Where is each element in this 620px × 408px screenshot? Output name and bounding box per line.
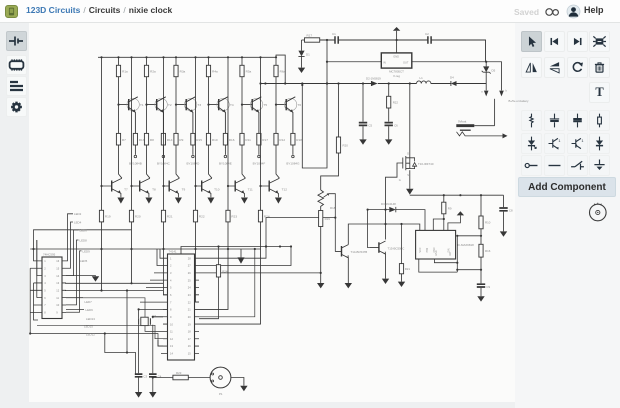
wire: U1 to U2 b	[37, 325, 163, 338]
svg-text:C6: C6	[394, 124, 398, 128]
svg-text:R20: R20	[343, 144, 349, 148]
wire: column 1 rail	[101, 57, 103, 210]
svg-text:LED8: LED8	[80, 238, 88, 242]
wire: U1 to U2 row d	[65, 290, 163, 292]
ground C5	[362, 126, 364, 139]
net arrow: T10 emitter	[207, 198, 214, 204]
net arrow: T7 emitter	[117, 198, 124, 204]
svg-text:T12: T12	[282, 188, 288, 192]
IC U2	[168, 254, 195, 360]
svg-text:BY1084D: BY1084D	[186, 162, 200, 166]
wire: T2 collector to T8	[147, 145, 150, 178]
speaker component thumb	[586, 201, 610, 225]
wire: T16 gate drive	[386, 163, 403, 240]
ground C4	[152, 378, 154, 393]
svg-text:BY1084B: BY1084B	[129, 162, 142, 166]
diode D2	[371, 81, 377, 86]
inductor L1	[417, 81, 431, 84]
resistor R24	[218, 247, 220, 265]
wire: T14 collector	[348, 224, 420, 245]
transistor T14	[341, 246, 343, 257]
svg-text:R19: R19	[325, 217, 331, 221]
capacitor C1	[335, 36, 338, 44]
svg-text:R22: R22	[199, 215, 205, 219]
net arrow: T9 emitter	[175, 198, 182, 204]
svg-text:R20: R20	[135, 215, 141, 219]
svg-text:9Vbatt: 9Vbatt	[458, 120, 467, 124]
top bar	[0, 0, 620, 23]
wire: battery minus	[457, 132, 503, 136]
node BY1084B	[134, 145, 136, 155]
transistor T3	[184, 98, 196, 110]
svg-text:C2: C2	[425, 32, 429, 36]
ground T15	[385, 257, 387, 279]
wire: crystal to U2	[139, 309, 163, 318]
wire: column 5 to logic	[199, 222, 228, 310]
buzzer P1	[188, 377, 210, 379]
svg-text:IC-MAX6818: IC-MAX6818	[457, 243, 474, 247]
wire: U2 out staircase	[199, 218, 335, 273]
svg-text:C8: C8	[509, 209, 513, 213]
svg-text:V-reg: V-reg	[393, 74, 400, 78]
wire: wiper tap	[329, 194, 336, 252]
svg-text:R9: R9	[448, 206, 452, 210]
resistor R10	[480, 195, 482, 216]
wire: T15 base	[368, 210, 370, 248]
wire: U2 top supply	[181, 247, 291, 255]
svg-text:GND: GND	[435, 250, 438, 256]
svg-text:LED9: LED9	[86, 308, 94, 312]
svg-text:S: S	[407, 173, 409, 177]
resistor R6c	[291, 133, 295, 145]
resistor R4b	[206, 133, 210, 145]
wire: U1 to U2 a	[66, 298, 163, 332]
node LED9	[66, 251, 82, 312]
resistor R24	[258, 210, 262, 222]
capacitor C9	[480, 257, 482, 283]
svg-text:R7: R7	[122, 138, 126, 142]
resistor R16	[480, 229, 482, 245]
resistor R2	[146, 57, 148, 65]
svg-text:R22: R22	[393, 101, 399, 105]
node LED6	[66, 230, 79, 276]
svg-text:R13: R13	[139, 138, 145, 142]
capacitor C5	[362, 84, 364, 122]
wire: R4 to T4 base	[209, 77, 219, 134]
svg-text:T4: T4	[230, 103, 234, 107]
svg-text:R14: R14	[167, 138, 173, 142]
zener D5	[485, 62, 487, 67]
svg-text:74HC595: 74HC595	[43, 252, 56, 256]
resistor R6b	[274, 133, 278, 145]
svg-text:b: b	[506, 89, 508, 92]
svg-text:LED7: LED7	[85, 300, 93, 304]
ground C3	[138, 378, 140, 393]
resistor R23	[226, 210, 230, 222]
svg-text:R3a: R3a	[180, 70, 186, 74]
wire: column 4 to logic	[196, 222, 200, 302]
resistor R4c	[223, 133, 227, 145]
ground T16 source	[409, 170, 411, 189]
svg-text:R2a: R2a	[150, 70, 156, 74]
svg-text:T9: T9	[182, 188, 186, 192]
svg-text:R15: R15	[196, 138, 202, 142]
svg-text:R19: R19	[105, 215, 111, 219]
svg-text:LED6: LED6	[80, 228, 88, 232]
svg-text:T6: T6	[298, 103, 302, 107]
wire: data bus A	[30, 248, 260, 250]
chat icon	[545, 7, 561, 17]
svg-text:R12: R12	[279, 138, 285, 142]
transistor T11	[234, 181, 236, 192]
wire: +5V logic rail	[410, 194, 504, 196]
avatar	[566, 4, 581, 19]
svg-text:R10: R10	[485, 221, 491, 225]
ground buzzer	[231, 378, 244, 386]
svg-text:B+5v-or-battery: B+5v-or-battery	[509, 99, 530, 103]
svg-text:R18: R18	[296, 138, 302, 142]
wire: bus to boost output	[276, 55, 285, 83]
wire: T1 collector to T7	[119, 145, 122, 178]
svg-text:T11: T11	[248, 188, 253, 192]
svg-text:C1: C1	[332, 32, 336, 36]
ground U1	[66, 275, 96, 278]
svg-text:R16: R16	[229, 138, 235, 142]
svg-text:BY1084G: BY1084G	[286, 162, 300, 166]
wire: bus A to U2	[199, 249, 255, 317]
net arrow: T11 emitter	[241, 198, 248, 204]
net arrow: T8 emitter	[145, 198, 152, 204]
wire: R5 to T5 base	[242, 77, 252, 134]
svg-text:LED13: LED13	[86, 317, 95, 321]
node LED7	[66, 297, 83, 299]
svg-text:IN: IN	[383, 60, 386, 64]
resistor R17	[302, 39, 305, 41]
svg-text:G: G	[399, 178, 401, 182]
svg-text:R23: R23	[231, 215, 237, 219]
wire: left bus verticals	[30, 240, 38, 334]
node BY1084G	[292, 145, 294, 155]
transistor T12	[268, 181, 270, 192]
wire: R20 to potentiometer	[321, 153, 339, 190]
svg-text:a: a	[481, 90, 483, 93]
resistor R5c	[257, 133, 261, 145]
transistor T10	[201, 181, 203, 192]
wire: column 2 rail	[131, 57, 133, 210]
svg-text:R23: R23	[176, 371, 182, 375]
wire: R1 to T1 base	[119, 77, 129, 134]
crystal Y1	[141, 317, 148, 325]
svg-text:T5: T5	[264, 103, 268, 107]
transistor T15	[378, 242, 380, 253]
resistor R5	[241, 57, 243, 65]
resistor R1b	[116, 133, 120, 145]
IC U4 MAX	[416, 230, 456, 259]
svg-text:VCC: VCC	[419, 247, 422, 252]
svg-text:T8: T8	[152, 188, 156, 192]
svg-text:C5: C5	[368, 124, 372, 128]
ground C6	[388, 126, 390, 139]
right toolbar row2	[521, 57, 542, 78]
wire: R3 to T3 base	[176, 77, 186, 134]
capacitor C8	[503, 195, 505, 207]
node BY1084F	[258, 145, 260, 155]
wire: T13 loop	[302, 84, 327, 169]
transistor T6	[284, 98, 296, 110]
svg-text:R5a: R5a	[246, 70, 252, 74]
capacitor C2	[428, 36, 431, 44]
capacitor C3	[135, 374, 143, 377]
wire: column 5 rail	[227, 57, 229, 210]
svg-text:L1: L1	[420, 76, 424, 80]
svg-text:R16: R16	[485, 249, 491, 253]
node BY1084D	[192, 145, 194, 155]
wire: T6 collector to T12	[276, 145, 279, 178]
node LED2	[66, 214, 73, 261]
wire: column 4 rail	[195, 57, 197, 210]
wire: R6 to T6 base	[276, 77, 286, 134]
svg-text:GND: GND	[393, 55, 399, 59]
ground R21	[401, 274, 403, 282]
svg-text:LED15: LED15	[84, 324, 93, 328]
wire: column 6 to logic	[199, 222, 261, 324]
svg-text:C4: C4	[158, 375, 162, 379]
transistor T8	[139, 181, 141, 192]
svg-text:R8: R8	[150, 138, 154, 142]
wire: U4 top pins	[396, 210, 444, 231]
net arrow: T12 emitter	[275, 198, 282, 204]
svg-text:T1: T1	[140, 103, 144, 107]
node LED9	[66, 309, 84, 311]
svg-text:R17: R17	[307, 33, 313, 37]
resistor R3	[175, 57, 177, 65]
svg-text:T2: T2	[168, 103, 172, 107]
svg-text:R6a: R6a	[280, 70, 286, 74]
svg-text:R11: R11	[245, 138, 251, 142]
svg-text:R9: R9	[179, 138, 183, 142]
resistor R4	[208, 57, 210, 65]
svg-text:D2-1N5819: D2-1N5819	[366, 77, 381, 81]
diode D1	[301, 40, 303, 51]
resistor R1	[118, 57, 120, 65]
capacitor C4	[149, 374, 157, 377]
svg-text:R17: R17	[262, 138, 268, 142]
ground C9	[480, 288, 482, 296]
svg-text:C3: C3	[143, 375, 147, 379]
svg-text:T3: T3	[198, 103, 202, 107]
capacitor C6	[388, 108, 390, 122]
wire: U1 loop	[105, 291, 136, 375]
diode D3	[368, 209, 390, 211]
logo	[5, 5, 18, 18]
left sidebar	[6, 31, 27, 51]
ground T14	[347, 260, 349, 283]
node LED4	[66, 222, 73, 268]
wire: R2 to T2 base	[147, 77, 157, 134]
resistor R5b	[240, 133, 244, 145]
resistor R22	[388, 84, 390, 97]
wire: T4 collector to T10	[209, 145, 212, 178]
svg-text:T14-BC547B: T14-BC547B	[351, 250, 368, 254]
svg-text:DO: DO	[449, 252, 452, 256]
svg-text:LED9: LED9	[83, 249, 91, 253]
svg-text:R21: R21	[167, 215, 173, 219]
node LED8	[66, 240, 79, 305]
wire: 9V switched line	[261, 83, 487, 85]
resistor R2c	[161, 133, 165, 145]
transistor T5	[250, 98, 262, 110]
transistor T16 MOSFET	[409, 84, 411, 158]
battery BAT1	[456, 124, 474, 127]
svg-text:OUT: OUT	[403, 60, 409, 64]
svg-text:T7: T7	[124, 188, 128, 192]
transistor T4	[217, 98, 229, 110]
svg-text:BY1084E: BY1084E	[219, 162, 232, 166]
wire: R10 R16 taps	[457, 236, 481, 270]
svg-text:R24: R24	[222, 269, 228, 273]
voltage regulator U3	[381, 53, 412, 68]
svg-text:D: D	[407, 151, 409, 155]
wire: column 1 to logic	[101, 222, 103, 291]
potentiometer R18	[318, 190, 324, 211]
ground R19	[320, 227, 322, 284]
wire: regulator output	[412, 62, 502, 91]
canvas background	[29, 23, 515, 402]
resistor R9	[443, 195, 445, 202]
resistor R23	[153, 377, 173, 379]
component grid	[521, 110, 542, 131]
svg-text:LED2: LED2	[74, 212, 82, 216]
resistor R20	[129, 210, 133, 222]
wire: +170V anode bus	[98, 56, 276, 58]
resistor R2b	[144, 133, 148, 145]
wire: column 3 rail	[163, 57, 165, 210]
ground C8	[503, 212, 505, 232]
svg-text:R21: R21	[405, 267, 411, 271]
resistor R21	[161, 210, 165, 222]
svg-text:D5: D5	[492, 69, 496, 73]
power arrow +5V	[396, 31, 398, 53]
svg-text:T16-IRF740: T16-IRF740	[418, 162, 434, 166]
text tool	[589, 82, 610, 103]
wire: U1 to U2 c	[30, 334, 163, 347]
wire: T3 collector to T9	[176, 145, 179, 178]
resistor R19	[319, 211, 323, 227]
resistor R3c	[191, 133, 195, 145]
node BY1084C	[162, 145, 164, 155]
diode D4	[451, 81, 457, 86]
svg-text:LED4: LED4	[74, 220, 82, 224]
wire: crystal caps rails	[139, 325, 153, 374]
svg-text:LED12: LED12	[86, 332, 95, 336]
wire: T5 collector to T11	[242, 145, 245, 178]
resistor R3b	[174, 133, 178, 145]
resistor R19	[99, 210, 103, 222]
resistor R20	[338, 84, 340, 138]
ground D1	[298, 68, 305, 73]
net arrow: bus A	[240, 249, 242, 257]
svg-text:D4: D4	[450, 76, 454, 80]
svg-text:LED5: LED5	[80, 259, 88, 263]
svg-text:T10: T10	[214, 188, 220, 192]
svg-text:R18: R18	[330, 206, 336, 210]
wire: switch pole	[494, 99, 496, 126]
svg-text:BY1084F: BY1084F	[253, 162, 266, 166]
resistor R6	[275, 57, 277, 65]
resistor R22	[193, 210, 197, 222]
wire: column 3 to logic	[164, 222, 168, 295]
wire: column 2 to logic	[131, 222, 133, 283]
wire: U1 to U2 row e	[65, 282, 163, 284]
transistor T9	[168, 181, 170, 192]
transistor T2	[155, 98, 167, 110]
power arrow IC3	[448, 215, 461, 230]
node BY1084E	[224, 145, 226, 155]
svg-text:P1: P1	[219, 392, 223, 396]
IC U1	[42, 257, 62, 319]
resistor R1c	[133, 133, 137, 145]
svg-text:R4a: R4a	[212, 70, 218, 74]
svg-text:74141: 74141	[169, 249, 177, 253]
wire: 9V input rail	[320, 40, 486, 62]
switch S1	[485, 84, 487, 91]
wire: U2 left pins to nest	[140, 249, 163, 353]
wire: column 6 rail	[260, 57, 262, 210]
wire: U1 left pins	[30, 230, 131, 313]
net arrow: battery return	[503, 133, 508, 138]
wire: rail to regulator	[327, 40, 381, 84]
svg-text:D3-1N4148: D3-1N4148	[381, 202, 396, 206]
svg-text:PB0: PB0	[426, 247, 429, 252]
svg-text:D1: D1	[306, 53, 310, 57]
svg-text:C9: C9	[486, 285, 490, 289]
resistor R21	[401, 224, 403, 264]
right toolbar row1	[521, 31, 542, 52]
svg-text:R1a: R1a	[122, 70, 128, 74]
wire: U4 bottom loops	[419, 236, 458, 272]
wire: battery plus	[474, 125, 494, 127]
svg-text:R10: R10	[212, 138, 218, 142]
transistor T7	[111, 181, 113, 192]
wire: R24 to U2	[199, 277, 219, 319]
transistor T1	[127, 98, 139, 110]
